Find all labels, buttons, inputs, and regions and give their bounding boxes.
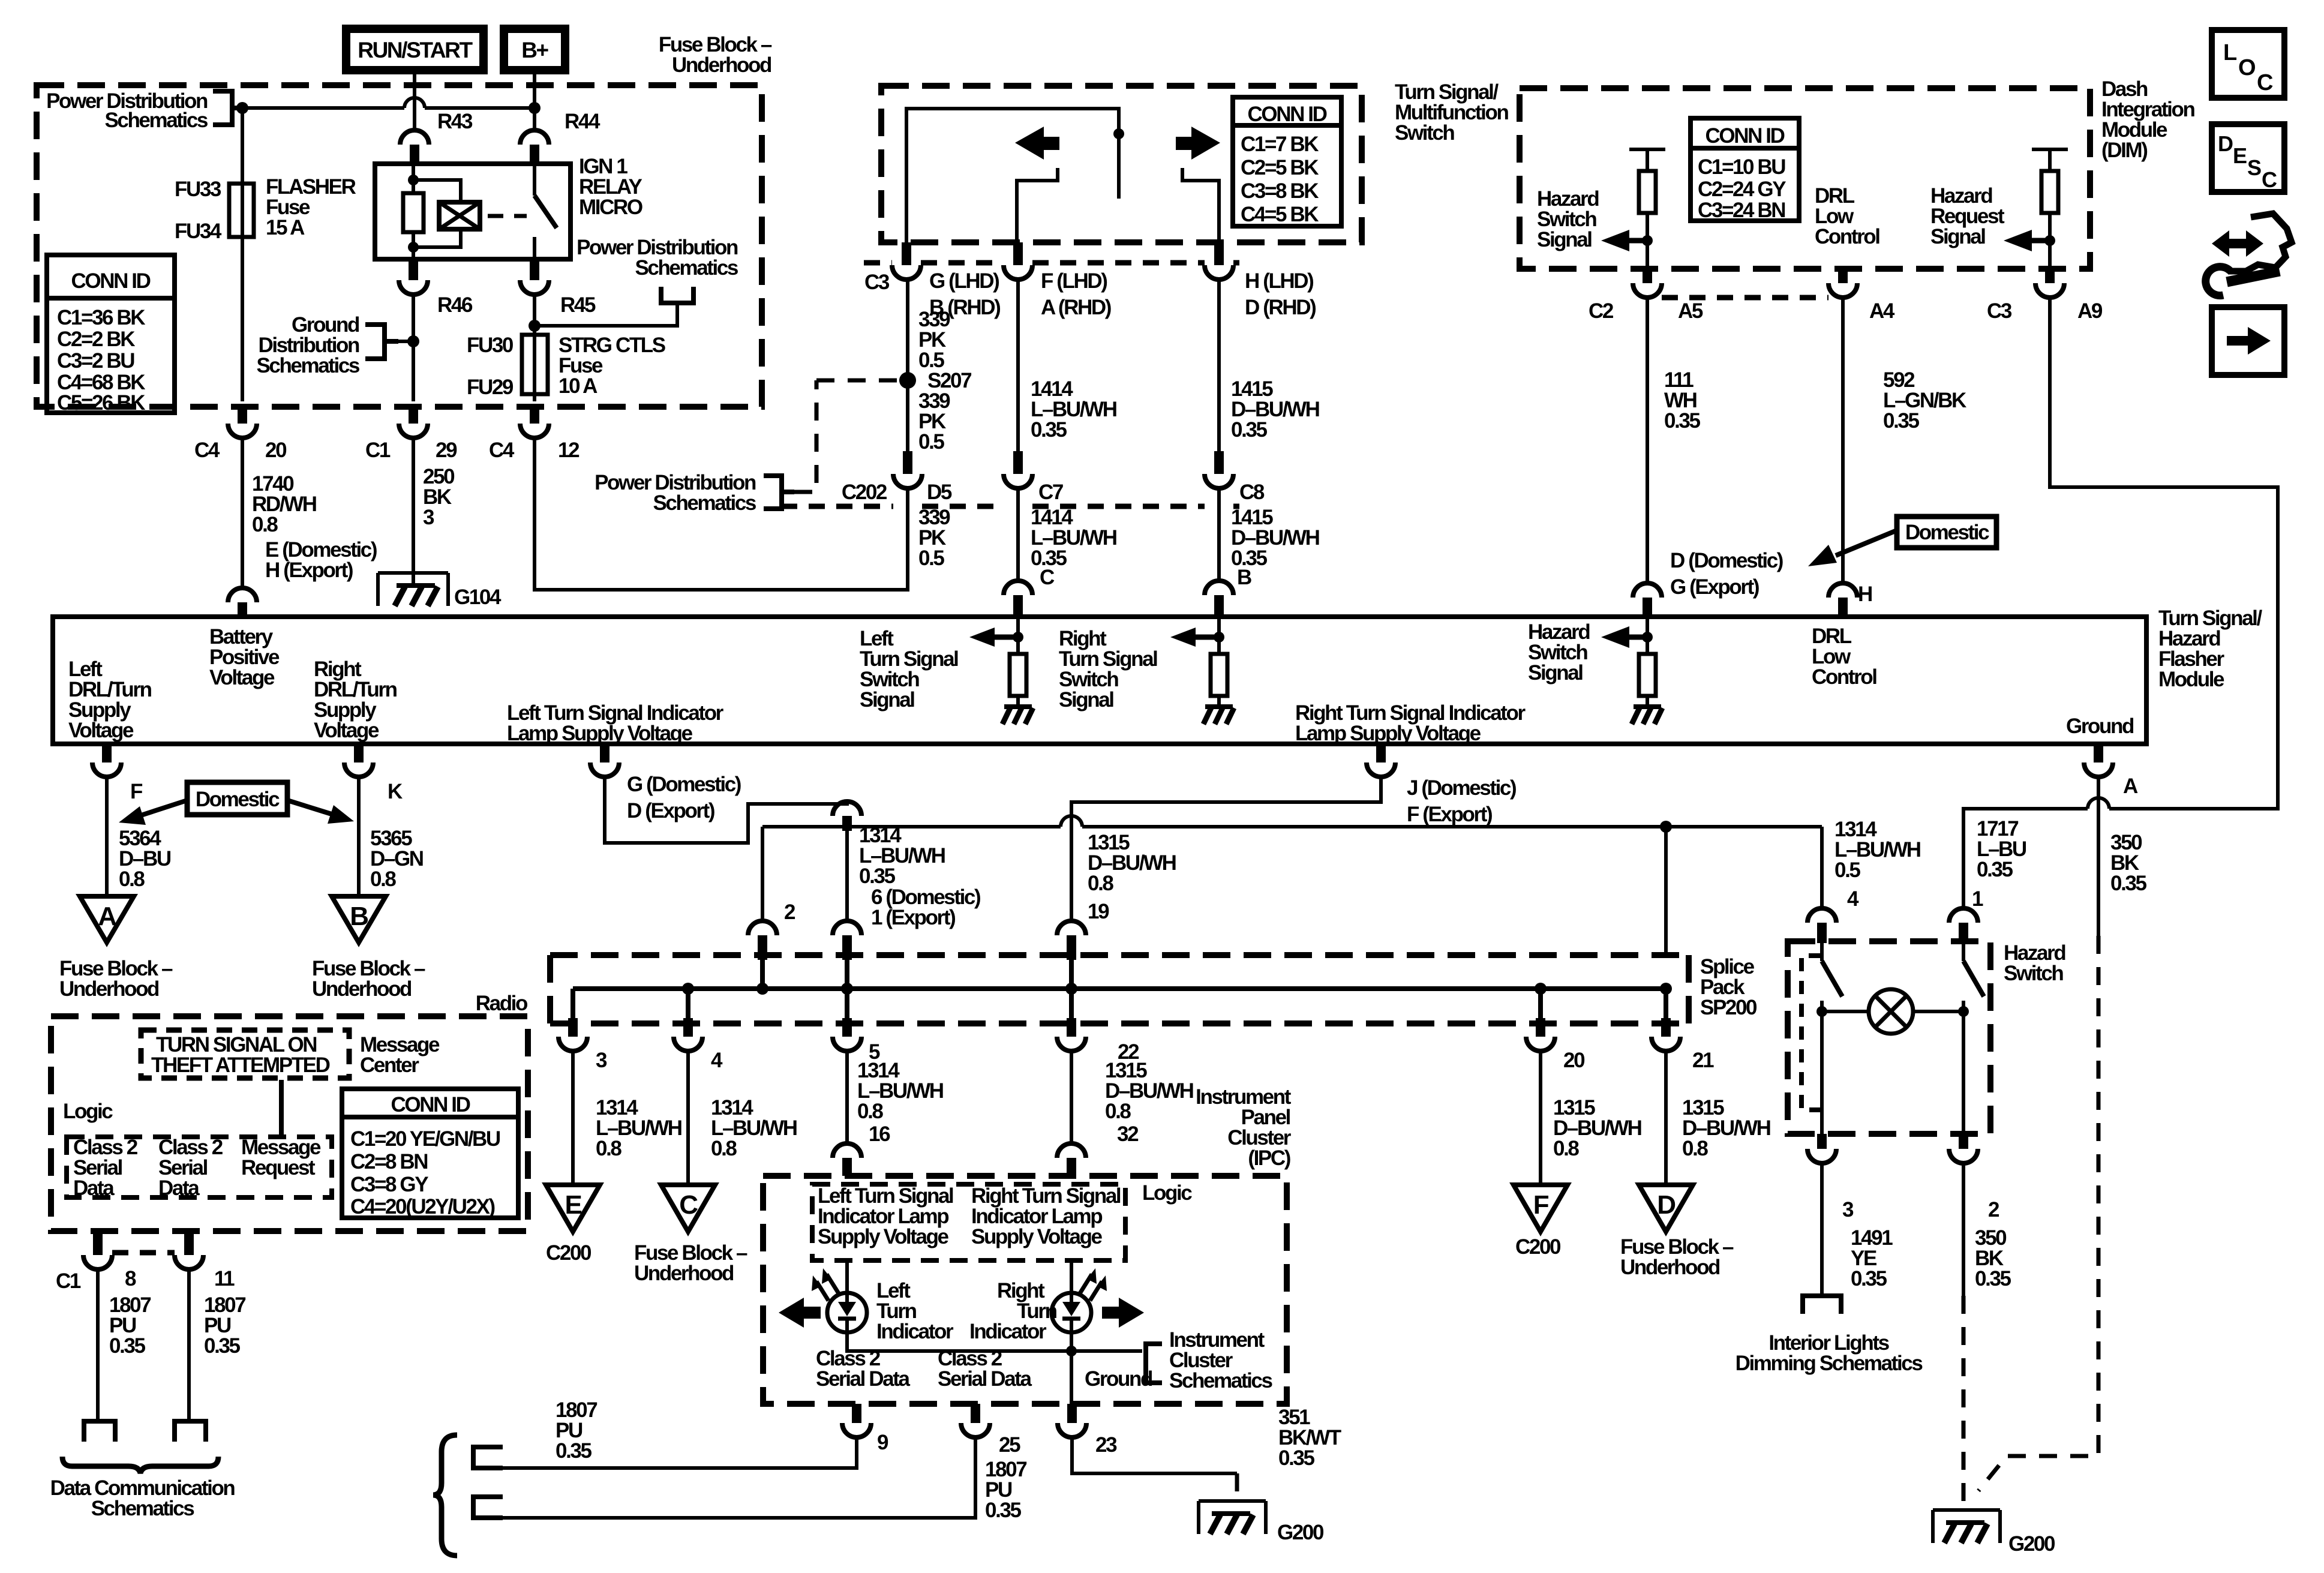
connector SP200 pin 21 [1652, 1018, 1714, 1072]
fuse FU30/FU29 STRG CTLS 10A [467, 334, 665, 399]
svg-text:25: 25 [999, 1433, 1020, 1457]
svg-text:O: O [2238, 55, 2255, 80]
dashed wire from bracket to S207 [794, 380, 900, 492]
node: splice S207 [899, 369, 971, 392]
label Class 2 Serial Data (IPC left) [816, 1347, 910, 1391]
svg-text:C: C [2257, 70, 2273, 95]
wire: relay internal left [412, 164, 415, 259]
svg-text:Voltage: Voltage [314, 719, 379, 742]
label DRL Low Control (DIM) [1815, 184, 1879, 248]
svg-text:Underhood: Underhood [1620, 1256, 1720, 1279]
connector hazard switch pin 1 [1949, 887, 1983, 943]
connector IPC pin 23 [1058, 1404, 1117, 1457]
off-page bracket (power distribution to S207) [764, 476, 794, 509]
off-page triangle D [1639, 1185, 1693, 1232]
svg-text:19: 19 [1088, 900, 1109, 923]
connector module pin C [1004, 581, 1032, 595]
arrow icon right (IPC) [1102, 1298, 1144, 1328]
svg-text:F: F [1533, 1190, 1549, 1220]
connector module pin D/G (hazard switch signal) [1633, 583, 1662, 598]
hazard switch left pole [1820, 941, 1824, 961]
connector C202 pin C7 [1004, 451, 1063, 504]
wire label 1807 PU 0.35 (data wire 1) [556, 1398, 597, 1463]
svg-text:C4=5 BK: C4=5 BK [1241, 203, 1319, 226]
wire label 1314 L-BU/WH 0.8 16 [857, 1059, 943, 1146]
svg-text:Schematics: Schematics [653, 491, 756, 515]
ground G104 [378, 573, 502, 609]
label Power Distribution Schematics (top left) [46, 89, 208, 132]
wire: branch to SP200 pin 2 and on to hazard switch pin 4 riser [762, 827, 1822, 957]
left turn arrow icon [1015, 127, 1059, 160]
svg-text:R43: R43 [437, 110, 473, 133]
off-page triangle C [661, 1185, 715, 1232]
label Fuse Block - Underhood (top right) [659, 33, 772, 77]
svg-text:C4: C4 [489, 439, 515, 462]
svg-text:Radio: Radio [476, 992, 528, 1015]
svg-text:0.8: 0.8 [711, 1137, 737, 1160]
svg-text:0.8: 0.8 [252, 513, 278, 536]
svg-text:Dimming Schematics: Dimming Schematics [1736, 1352, 1923, 1375]
wire: 250 BK wire down to G104 [412, 438, 415, 586]
wire label 351 BK/WT 0.35 [1278, 1406, 1341, 1470]
hazard switch dashed box [1788, 941, 1990, 1134]
svg-text:Switch: Switch [2004, 962, 2063, 985]
LED right turn indicator [1052, 1293, 1091, 1332]
svg-text:H (LHD): H (LHD) [1245, 269, 1313, 293]
connector IPC pin 25 [961, 1404, 1020, 1457]
svg-text:Request: Request [241, 1156, 316, 1179]
label Class 2 Serial Data (radio 1) [73, 1136, 138, 1200]
svg-text:D: D [1657, 1190, 1675, 1220]
svg-text:Serial Data: Serial Data [938, 1367, 1032, 1391]
svg-text:B: B [350, 902, 368, 931]
wire: R46 down through box bottom [412, 295, 415, 401]
wire label 339 PK 0.5 (below C202) [918, 506, 950, 570]
svg-text:F (LHD): F (LHD) [1041, 269, 1107, 293]
svg-text:C1=20 YE/GN/BU: C1=20 YE/GN/BU [350, 1127, 500, 1151]
svg-text:F (Export): F (Export) [1407, 803, 1492, 826]
svg-text:9: 9 [877, 1431, 888, 1454]
connector module pin A (ground) [2084, 746, 2138, 798]
svg-text:Indicator: Indicator [876, 1320, 954, 1343]
svg-text:C2=8 BN: C2=8 BN [350, 1150, 427, 1173]
svg-text:Voltage: Voltage [68, 719, 134, 742]
switch internal top rail [906, 109, 1119, 242]
svg-text:Indicator: Indicator [969, 1320, 1047, 1343]
svg-text:Module: Module [2158, 668, 2224, 691]
svg-text:S: S [2247, 155, 2261, 180]
svg-text:10 A: 10 A [559, 374, 597, 398]
svg-text:R44: R44 [565, 110, 600, 133]
svg-text:FU33: FU33 [175, 178, 221, 201]
svg-text:C1=10 BU: C1=10 BU [1698, 155, 1785, 179]
svg-text:C202: C202 [842, 481, 887, 504]
svg-text:E: E [2233, 143, 2247, 168]
radio data staple 2 [473, 1497, 503, 1518]
svg-text:Center: Center [360, 1053, 419, 1077]
svg-text:FU34: FU34 [175, 220, 222, 243]
wire: pin 21 down to triangle D [1664, 1051, 1668, 1185]
LED light rays (right) [1080, 1274, 1102, 1301]
connector module pin G/D [590, 746, 741, 822]
connector C1 pin 29 [365, 404, 457, 462]
hazard switch linkage dashed box [1801, 956, 1822, 1110]
wire: A5 down to module pin D/G [1646, 298, 1649, 583]
svg-text:B+: B+ [521, 38, 548, 62]
connector R43 [400, 110, 473, 164]
wire: left LED column [847, 1260, 1142, 1351]
node: junction dot on R46 wire [407, 335, 419, 347]
dotted connector interface line (DIM) [1662, 295, 1828, 301]
wire: branch right to power distribution bracket [535, 303, 677, 326]
node: dot right lamp tap [1958, 1006, 1969, 1017]
wire label 350 BK 0.35 (hazard pin 2) [1975, 1226, 2011, 1290]
svg-text:0.5: 0.5 [918, 430, 944, 454]
connector C202 pin D5 [842, 451, 952, 504]
DIM internal rail tick (hazard request) [2032, 148, 2068, 151]
turn signal / hazard flasher module box [53, 617, 2146, 744]
svg-text:Logic: Logic [1142, 1181, 1192, 1205]
wire: switch H down to C202 C8 [1217, 280, 1221, 451]
connector module pin H (DRL low control) [1828, 583, 1857, 598]
connector hazard switch pin 3 [1807, 1134, 1854, 1221]
svg-text:A (RHD): A (RHD) [1041, 296, 1111, 319]
label Instrument Panel Cluster (IPC) [1196, 1085, 1292, 1170]
label Battery Positive Voltage [209, 625, 280, 689]
svg-text:20: 20 [265, 439, 287, 462]
radio dashed box [51, 1016, 528, 1231]
svg-text:Signal: Signal [860, 688, 914, 712]
arrow icon left (IPC) [779, 1298, 821, 1328]
label Left DRL/Turn Supply Voltage [68, 658, 152, 742]
wire label 250 BK 3 [423, 465, 455, 529]
CONN ID table (fuse block) [47, 255, 175, 415]
svg-text:Ground: Ground [2066, 715, 2134, 738]
wire label 1314 L-BU/WH 0.35 6(Domestic) 1(Export) [859, 824, 980, 929]
svg-text:Domestic: Domestic [1905, 521, 1989, 544]
CONN ID table (multifunction switch) [1233, 97, 1341, 226]
svg-text:C3: C3 [864, 271, 890, 294]
wire label 1807 PU 0.35 (pin 11) [204, 1293, 245, 1358]
svg-text:C8: C8 [1239, 481, 1265, 504]
label Left Turn Indicator [876, 1279, 954, 1343]
fuse FU33/FU34 FLASHER 15A [175, 175, 356, 243]
svg-text:C: C [2262, 167, 2277, 192]
label E (Domestic) H (Export) [265, 538, 377, 582]
svg-text:C3=8 BK: C3=8 BK [1241, 179, 1319, 203]
svg-text:0.35: 0.35 [1977, 858, 2013, 881]
wire: B+ down to R44 [533, 74, 536, 130]
svg-text:A: A [98, 902, 116, 931]
svg-text:2: 2 [1988, 1198, 1999, 1221]
CONN ID table (radio) [342, 1089, 518, 1218]
connector pin A4 [1828, 269, 1895, 323]
svg-text:23: 23 [1095, 1433, 1117, 1457]
connector hazard switch pin 2 [1949, 1134, 1999, 1221]
svg-text:Supply Voltage: Supply Voltage [818, 1225, 949, 1248]
svg-text:15 A: 15 A [266, 216, 305, 239]
wire label 1315 D-BU/WH 0.8 (pin 20) [1553, 1096, 1641, 1160]
svg-text:Data: Data [158, 1176, 200, 1200]
wire: pin J/F route down to pin 19 [1071, 777, 1381, 921]
svg-text:0.35: 0.35 [859, 864, 895, 888]
svg-text:32: 32 [1117, 1122, 1139, 1146]
off-page bracket (interior lights dimming) [1803, 1296, 1841, 1314]
connector SP200 pin 19 [1057, 900, 1109, 960]
svg-text:C2=5 BK: C2=5 BK [1241, 156, 1319, 179]
svg-text:H (Export): H (Export) [265, 559, 353, 582]
wire: pin 3 down to interior lights bracket [1820, 1163, 1824, 1296]
svg-text:0.35: 0.35 [1031, 418, 1067, 442]
wire: top horizontal from bracket to B+ wire [242, 106, 535, 110]
svg-text:Supply Voltage: Supply Voltage [971, 1225, 1103, 1248]
svg-text:C: C [679, 1190, 698, 1220]
svg-text:0.8: 0.8 [1682, 1137, 1708, 1160]
wire label 1314 L-BU/WH 0.5 (hazard pin 4) [1834, 818, 1920, 882]
svg-text:3: 3 [1842, 1198, 1854, 1221]
wire: fuse down to box bottom [241, 237, 244, 401]
svg-text:C2=2 BK: C2=2 BK [57, 328, 135, 351]
wire hop over J/F wire [1061, 816, 1082, 827]
label Fuse Block - Underhood (under A) [59, 957, 173, 1001]
svg-text:Data: Data [73, 1176, 115, 1200]
connector C3 pin G(LHD)/B(RHD) [864, 242, 1000, 319]
svg-text:J (Domestic): J (Domestic) [1407, 776, 1516, 800]
message box TURN SIGNAL ON THEFT ATTEMPTED [141, 1030, 349, 1078]
svg-text:C1: C1 [56, 1269, 81, 1293]
svg-text:3: 3 [423, 506, 434, 529]
label Left Turn Signal Switch Signal [860, 627, 958, 712]
svg-text:0.35: 0.35 [1231, 418, 1267, 442]
turn signal / multifunction switch dashed box [881, 86, 1362, 242]
svg-text:Schematics: Schematics [635, 256, 738, 280]
svg-text:C4=20(U2Y/U2X): C4=20(U2Y/U2X) [350, 1195, 494, 1218]
svg-text:(IPC): (IPC) [1248, 1146, 1290, 1170]
label Instrument Cluster Schematics [1169, 1328, 1272, 1392]
connector radio pin 11 [175, 1231, 235, 1290]
node: junction dot above FU30 [529, 320, 541, 332]
connector SP200 pin 5 [833, 1018, 880, 1064]
svg-text:0.35: 0.35 [1975, 1267, 2011, 1290]
label Right Turn Signal Indicator Lamp Supply Voltage (IPC) [971, 1184, 1121, 1248]
connector C2 pin A5 [1589, 269, 1703, 323]
label Dash Integration Module (DIM) [2101, 77, 2194, 162]
svg-text:0.8: 0.8 [1105, 1100, 1131, 1123]
label Right Turn Signal Indicator Lamp Supply Voltage [1295, 701, 1526, 745]
label Hazard Request Signal (DIM) [1930, 184, 2005, 248]
connector IPC pin 9 [842, 1404, 888, 1454]
wire: message request link [279, 1080, 284, 1137]
dashed wire: module pin A to G200 [1978, 936, 2098, 1491]
icon DESC box [2212, 124, 2284, 192]
connector IPC pin 32 [1057, 1143, 1086, 1158]
wire label 592 L-GN/BK 0.35 [1883, 368, 1966, 433]
svg-text:4: 4 [711, 1049, 723, 1072]
switch common arm [1117, 134, 1121, 199]
label Message Request [241, 1136, 321, 1179]
svg-text:D (RHD): D (RHD) [1245, 296, 1316, 319]
terminal staple pin 11 [175, 1421, 206, 1442]
wire hop at pin A wire crossing [2088, 798, 2109, 809]
svg-text:Underhood: Underhood [312, 977, 412, 1001]
wire: pin F down to triangle A [105, 777, 109, 896]
svg-text:Schematics: Schematics [256, 354, 359, 377]
connector radio C1 pin 8 [56, 1231, 136, 1293]
node: bus dot pin 21/hazard riser [1660, 983, 1672, 995]
label Hazard Switch [2004, 941, 2065, 985]
connector SP200 pin 20 [1526, 1018, 1585, 1072]
hazard indicator lamp [1822, 989, 1963, 1034]
svg-text:8: 8 [125, 1267, 136, 1290]
node: switch pivot dot [1113, 128, 1124, 139]
off-page bracket (power distribution right of relay) [661, 287, 693, 303]
svg-text:20: 20 [1563, 1049, 1585, 1072]
connector module pin K [344, 746, 403, 803]
svg-text:R45: R45 [560, 293, 596, 317]
svg-text:12: 12 [558, 439, 580, 462]
svg-text:D (Domestic): D (Domestic) [1670, 549, 1783, 572]
wire: RUN/START down to R43 [413, 74, 416, 130]
node: junction dot on B+ wire [529, 102, 541, 114]
svg-text:G (Domestic): G (Domestic) [627, 773, 741, 796]
svg-text:0.8: 0.8 [1553, 1137, 1579, 1160]
label Turn Signal/ Multifunction Switch [1395, 80, 1508, 145]
wire label 1315 D-BU/WH 0.8 (pin 19) [1088, 831, 1176, 895]
wire label 1414 L-BU/WH 0.35 (above C202) [1031, 377, 1116, 442]
svg-text:1 (Export): 1 (Export) [871, 906, 955, 929]
label Power Distribution Schematics (right of relay) [577, 236, 738, 280]
node: dot left lamp tap [1816, 1006, 1827, 1017]
wire: S207 down to C202 [906, 388, 909, 451]
wire label 5364 D-BU 0.8 [119, 827, 171, 891]
label Message Center [360, 1033, 440, 1077]
svg-text:0.35: 0.35 [2110, 872, 2146, 895]
wire label 339 PK 0.5 (below S207) [918, 389, 950, 454]
off-page bracket (power distribution top-left) [213, 91, 242, 125]
label Class 2 Serial Data (IPC mid) [938, 1347, 1032, 1391]
node: dot on hazard request wire [2044, 235, 2055, 246]
svg-text:C3=2 BU: C3=2 BU [57, 349, 134, 373]
svg-text:Domestic: Domestic [196, 788, 280, 811]
wire label 1717 L-BU 0.35 (hazard pin 1) [1977, 817, 2026, 881]
svg-text:THEFT ATTEMPTED: THEFT ATTEMPTED [151, 1053, 330, 1077]
svg-text:K: K [388, 780, 403, 803]
wire label 339 PK 0.5 (above S207) [918, 308, 950, 372]
connector E/H into flasher module [228, 588, 257, 617]
svg-text:4: 4 [1847, 887, 1859, 911]
icon LOC box [2212, 30, 2284, 98]
label Data Communication Schematics [50, 1476, 235, 1520]
label Fuse Block - Underhood (under D) [1620, 1235, 1734, 1279]
resistor inside relay [403, 193, 424, 232]
right turn arrow icon [1176, 127, 1220, 160]
svg-text:H: H [1858, 583, 1872, 606]
wire: relay coil branch [413, 180, 461, 247]
svg-text:Schematics: Schematics [1169, 1369, 1272, 1392]
icon double-arrow with wrench [2206, 214, 2292, 296]
svg-text:G (LHD): G (LHD) [929, 269, 999, 293]
svg-text:G104: G104 [454, 586, 502, 609]
svg-text:Underhood: Underhood [672, 53, 771, 77]
wire label 1415 D-BU/WH 0.35 (above C202) [1231, 377, 1319, 442]
radio logic dashed box [67, 1137, 332, 1197]
svg-text:Lamp Supply Voltage: Lamp Supply Voltage [507, 722, 693, 745]
wire hop over R43 wire [404, 98, 425, 108]
svg-text:C1=7 BK: C1=7 BK [1241, 133, 1319, 156]
svg-text:C200: C200 [1515, 1235, 1561, 1259]
CONN ID table (DIM) [1691, 118, 1799, 222]
wire label 1314 L-BU/WH 0.8 (pin 4) [711, 1096, 797, 1160]
wire label 1807 PU 0.35 (pin 8) [109, 1293, 151, 1358]
off-page triangle F [1514, 1185, 1568, 1232]
svg-text:0.35: 0.35 [109, 1334, 145, 1358]
svg-text:G200: G200 [1277, 1521, 1324, 1544]
svg-text:G200: G200 [2008, 1532, 2055, 1556]
svg-text:0.5: 0.5 [918, 547, 944, 570]
wire: pin 4 down to triangle C [686, 1051, 690, 1185]
svg-text:C4: C4 [194, 439, 220, 462]
svg-text:Switch: Switch [1395, 121, 1454, 145]
module internal: hazard switch signal branch [1601, 617, 1662, 724]
brace (data wires) [433, 1435, 457, 1556]
wire label 1315 D-BU/WH 0.8 (pin 21) [1682, 1096, 1770, 1160]
wire: pin 25 down-left to radio data wire 2 [471, 1437, 975, 1518]
label Splice Pack SP200 [1700, 955, 1757, 1019]
svg-text:Schematics: Schematics [104, 109, 208, 132]
node: bus dot pin 20 [1535, 983, 1547, 995]
connector SP200 pin 4 [674, 1018, 723, 1072]
connector R46 [399, 259, 473, 317]
node: relay internal bottom dot [408, 242, 419, 253]
svg-text:C200: C200 [546, 1241, 591, 1265]
connector SP200 pin 3 [559, 1018, 607, 1072]
svg-text:SP200: SP200 [1700, 996, 1757, 1019]
wire: left branch from junction down to fuse FU33 [241, 108, 244, 184]
arrow: hazard switch signal [1627, 238, 1647, 244]
svg-text:0.8: 0.8 [596, 1137, 621, 1160]
svg-text:29: 29 [436, 439, 457, 462]
connector SP200 pin 22 [1057, 1018, 1139, 1064]
label Interior Lights Dimming Schematics [1736, 1331, 1923, 1375]
svg-text:E: E [565, 1190, 582, 1220]
svg-text:0.35: 0.35 [1883, 409, 1919, 433]
wire: pin 5 down to pin 16 [845, 1051, 849, 1143]
svg-text:MICRO: MICRO [579, 196, 642, 219]
svg-text:2: 2 [784, 900, 795, 924]
terminal staple pin 8 [84, 1421, 115, 1442]
dashed link coil to switch [488, 214, 527, 218]
splice bus SP200 [573, 960, 1666, 1018]
fuse block underhood dashed box [37, 85, 762, 407]
svg-text:11: 11 [214, 1267, 235, 1290]
svg-text:F: F [130, 780, 143, 803]
wire label 1414 L-BU/WH 0.35 C [1031, 506, 1116, 589]
label D (Domestic) G (Export) [1670, 549, 1783, 599]
label Left Turn Signal Indicator Lamp Supply Voltage [507, 701, 724, 745]
dotted connector interface line (switch) [864, 260, 1239, 266]
wire: C202 C7 down to module pin C [1016, 488, 1020, 581]
hazard switch: riser from 1314 branch into pin 4 [1820, 827, 1824, 908]
Domestic callout box with arrow [1808, 517, 1996, 566]
connector C202 pin C8 [1205, 451, 1265, 504]
svg-text:G (Export): G (Export) [1670, 575, 1759, 599]
svg-text:L: L [2223, 40, 2237, 65]
relay switch contacts and arm [533, 164, 536, 259]
switch right contact and wire to pin H [1182, 168, 1219, 242]
wire label 1314 L-BU/WH 0.8 (pin 3) [596, 1096, 681, 1160]
svg-text:A9: A9 [2077, 299, 2103, 323]
wire: pin 12 wire down, right, up to C202 D5 [535, 438, 908, 590]
